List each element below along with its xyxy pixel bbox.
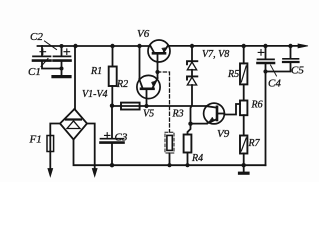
svg-text:R5: R5: [227, 69, 239, 80]
wire R7 to rail: [243, 154, 245, 166]
right column wire from rail: [243, 46, 245, 63]
wire V9 emitter to zener node: [191, 123, 208, 125]
wire zener to emitter node: [191, 85, 193, 124]
wire optional resistor to rail: [169, 153, 171, 165]
resistor R5: [240, 63, 247, 84]
svg-text:F1: F1: [29, 134, 42, 146]
svg-text:C5: C5: [291, 65, 304, 77]
svg-text:C3: C3: [115, 132, 128, 144]
optional resistor: [167, 135, 172, 150]
node dot D1: [155, 70, 159, 74]
svg-text:V9: V9: [217, 128, 230, 140]
node dot rail-bridge: [73, 44, 77, 48]
svg-text:C1: C1: [28, 66, 41, 78]
transistor V6: [148, 40, 170, 63]
transistor V5: [137, 75, 160, 106]
svg-text:R6: R6: [251, 100, 263, 111]
svg-text:V5: V5: [143, 109, 154, 120]
wire between zeners: [191, 70, 193, 77]
fuse F1: [47, 136, 54, 152]
potentiometer R6: [240, 101, 247, 116]
resistor R1 R2: [109, 67, 117, 87]
capacitor C3: [101, 106, 124, 166]
node dot rail-zener: [190, 44, 194, 48]
wire rail to R1R2: [112, 46, 114, 67]
node dot C1 C2 bottom join: [60, 67, 64, 71]
AC input arrow 1: [48, 152, 53, 177]
svg-text:R3: R3: [172, 109, 184, 120]
wire bridge right vertex down: [87, 124, 95, 169]
svg-text:R4: R4: [191, 153, 203, 164]
wire R5 to R6: [243, 84, 245, 100]
label C1: [28, 59, 48, 79]
wire top rail left segment: [38, 45, 150, 47]
chassis ground under C1 C2: [53, 75, 70, 78]
wire top rail right segment: [169, 45, 300, 47]
capacitor C2: [54, 46, 71, 75]
zener V8: [187, 76, 197, 85]
zener column wire from rail: [191, 46, 193, 60]
wire V5 emitter to V6 base node: [157, 72, 159, 78]
resistor R3 horizontal box: [121, 103, 140, 110]
resistor R7: [240, 136, 247, 154]
chassis ground at R7: [240, 165, 249, 173]
node dot optional-rail: [167, 163, 171, 167]
svg-text:R7: R7: [248, 138, 261, 149]
svg-text:R1: R1: [90, 66, 102, 77]
wire V6 base: [157, 63, 159, 73]
node dot rail-R1R2: [110, 44, 114, 48]
wire base bus y106: [112, 105, 207, 107]
node dot R7-rail: [242, 163, 246, 167]
wire bottom rail: [74, 140, 266, 166]
capacitor C4: [258, 44, 275, 165]
node dot V5 base: [144, 104, 148, 108]
wire R4 to rail: [187, 153, 189, 166]
node dot C3-bottom rail: [110, 163, 114, 167]
capacitor C5: [266, 44, 299, 72]
wire jog to R4: [188, 124, 191, 135]
AC input arrow 2: [92, 169, 97, 177]
svg-text:V6: V6: [137, 28, 150, 40]
capacitor C1: [33, 46, 62, 69]
svg-text:C4: C4: [268, 78, 281, 90]
wire bridge left vertex to fuse: [50, 124, 60, 136]
wire rail to bridge top: [74, 46, 77, 109]
zener V7: [187, 61, 197, 70]
node dot emitter junction: [188, 122, 192, 126]
node dot C4 C5 join: [263, 69, 267, 73]
wire R6 to R7: [243, 115, 245, 135]
wire V9 base to R6 tap: [224, 104, 240, 115]
node dot rail-R5: [242, 44, 246, 48]
svg-text:C2: C2: [30, 31, 43, 43]
label C2: [30, 31, 57, 50]
bridge rectifier V1-V4: [60, 109, 87, 140]
dashed link wire from D1: [158, 72, 170, 132]
node dot rail-V5collector: [137, 44, 141, 48]
node N1 dot: [110, 104, 114, 108]
node dot rail-C2: [60, 44, 64, 48]
resistor R4: [184, 135, 192, 153]
output arrow +: [298, 44, 308, 48]
label C4: [268, 65, 281, 90]
node dot R4-rail: [185, 163, 189, 167]
svg-text:R2: R2: [116, 79, 128, 90]
svg-text:V7, V8: V7, V8: [202, 49, 229, 60]
transistor V9: [204, 103, 225, 124]
optional resistor dashed box: [165, 132, 174, 153]
wire V5 collector to rail: [139, 46, 141, 79]
wire R1R2 to node N1: [111, 86, 113, 106]
svg-text:V1-V4: V1-V4: [82, 89, 108, 100]
